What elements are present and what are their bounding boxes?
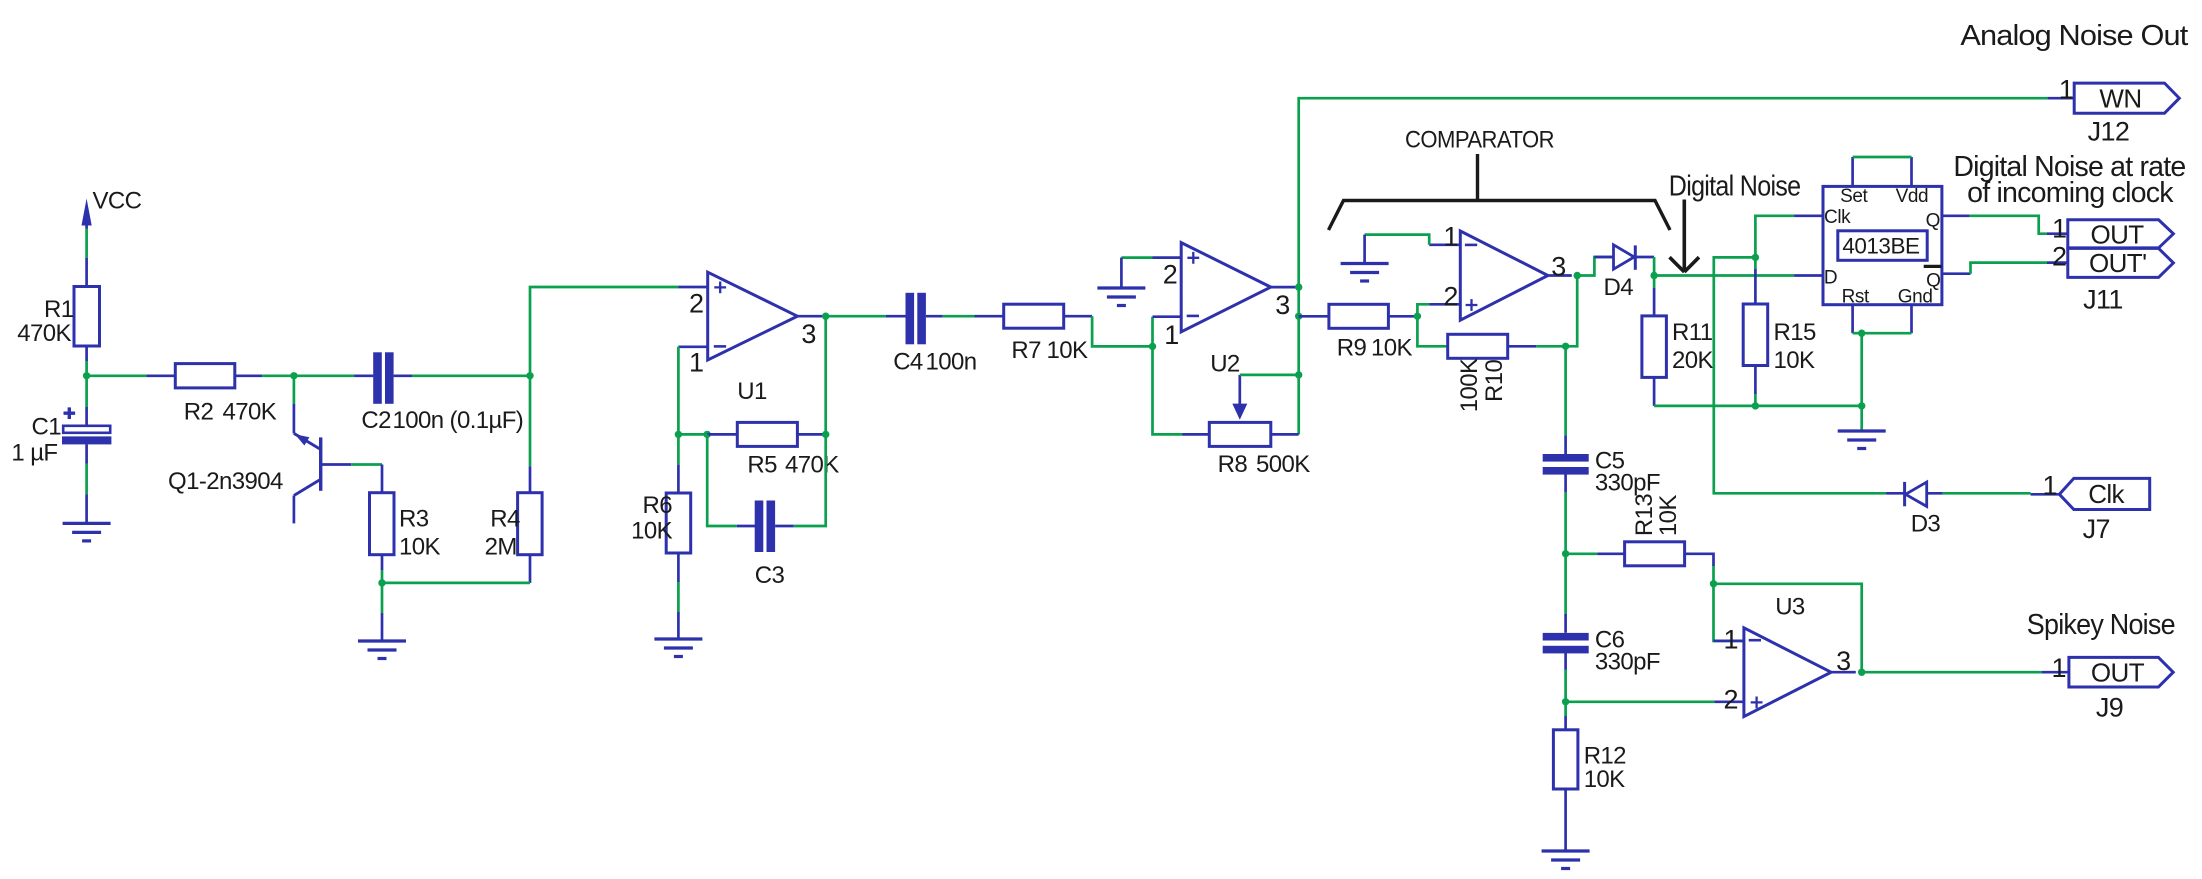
svg-text:3: 3 xyxy=(1275,290,1289,320)
wire down to R8 wiper row xyxy=(1297,316,1300,375)
wire R6 top xyxy=(677,434,680,464)
node R5 left xyxy=(704,431,711,438)
wire Qbar to OUT' connector xyxy=(1971,263,2048,274)
ground at U2 pin2 xyxy=(1097,258,1145,306)
ground below R3 xyxy=(358,613,406,659)
node U2 output xyxy=(1295,283,1302,290)
wire U2 pin1 node down to R8 left xyxy=(1153,346,1183,434)
diode D3 xyxy=(1886,482,1943,538)
wire D3 to J7 xyxy=(1943,492,2031,495)
connector J9 OUT xyxy=(2052,653,2174,687)
svg-text:Clk: Clk xyxy=(1824,207,1851,228)
wire node K down to R12 xyxy=(1564,702,1567,716)
wire Q1 base to R3 xyxy=(351,463,382,466)
svg-text:COMPARATOR: COMPARATOR xyxy=(1405,127,1554,154)
svg-text:R4: R4 xyxy=(490,506,520,533)
svg-text:2: 2 xyxy=(689,289,703,319)
svg-text:J7: J7 xyxy=(2083,514,2110,544)
wire node I down to U3 pin1 xyxy=(1714,584,1744,641)
op-amp comparator xyxy=(1429,222,1572,321)
wire comparator pin2 down to R10 xyxy=(1417,316,1447,346)
op-amp U1 xyxy=(678,272,825,405)
svg-text:1 µF: 1 µF xyxy=(11,440,57,467)
svg-text:10K: 10K xyxy=(631,518,672,545)
svg-text:10K: 10K xyxy=(399,534,440,561)
ic U4 4013BE xyxy=(1794,157,1970,333)
svg-text:Rst: Rst xyxy=(1842,287,1870,308)
svg-text:330pF: 330pF xyxy=(1595,649,1660,676)
transistor Q1 2n3904 xyxy=(168,404,351,523)
node R8 wiper row xyxy=(1295,371,1302,378)
svg-text:R5: R5 xyxy=(747,452,777,479)
node comparator output xyxy=(1574,272,1581,279)
node U1 output xyxy=(822,313,829,320)
op-amp U3 xyxy=(1714,594,1856,717)
svg-text:10K: 10K xyxy=(1371,335,1412,362)
resistor R4 xyxy=(485,466,542,583)
node K (U3 +input node) xyxy=(1562,698,1569,705)
svg-text:Analog Noise Out: Analog Noise Out xyxy=(1960,20,2188,52)
svg-text:Vdd: Vdd xyxy=(1896,186,1929,207)
svg-text:OUT': OUT' xyxy=(2089,248,2146,278)
node D (C2/R4 junction) xyxy=(526,372,533,379)
wire C5 top from node F xyxy=(1564,346,1567,435)
resistor R13 10K xyxy=(1597,494,1713,566)
node U2 inverting input xyxy=(1149,343,1156,350)
node G (digital noise node) xyxy=(1650,272,1657,279)
svg-text:1: 1 xyxy=(2052,653,2066,683)
wire C2 to node D xyxy=(412,374,530,377)
lead OUT pin1 xyxy=(2047,232,2068,235)
potentiometer R8 500K xyxy=(1182,375,1310,478)
svg-text:J9: J9 xyxy=(2096,693,2123,723)
svg-text:4013BE: 4013BE xyxy=(1842,234,1920,259)
wire node A to C1 xyxy=(85,376,88,407)
wire R13 right to node I xyxy=(1712,566,1715,584)
svg-text:Digital Noise: Digital Noise xyxy=(1669,171,1801,203)
wire U2 output down to R9 row xyxy=(1297,287,1300,316)
connector J11 pin1 OUT xyxy=(2052,214,2173,250)
resistor R1 xyxy=(17,258,99,361)
power flag VCC xyxy=(82,188,142,229)
wire R1 to node A xyxy=(85,361,88,376)
wire node B to C2 xyxy=(294,374,354,377)
svg-text:1: 1 xyxy=(1724,625,1738,655)
wire Q to OUT connector xyxy=(1970,216,2047,234)
wire node C to ground xyxy=(381,583,384,613)
wire C4 to R7 xyxy=(943,315,975,318)
wire node up to U2 pin1 xyxy=(1151,317,1154,347)
wire node to R5 left node xyxy=(678,433,707,436)
svg-text:C2: C2 xyxy=(361,407,391,434)
svg-text:D4: D4 xyxy=(1604,274,1634,301)
wire Rst/Gnd down to ground line xyxy=(1860,333,1863,406)
node ground line right xyxy=(1858,402,1865,409)
capacitor C6 330pF xyxy=(1543,614,1660,676)
resistor R10 100K xyxy=(1448,334,1537,412)
ground below 4013 xyxy=(1838,430,1886,449)
svg-text:WN: WN xyxy=(2099,84,2141,114)
wire R3 to node C xyxy=(381,570,384,583)
wire R10 right to node F xyxy=(1536,345,1565,348)
svg-text:2: 2 xyxy=(1724,684,1738,714)
wire node I feedback to U3 output xyxy=(1714,584,1862,672)
wire U1 output node down to R5 right xyxy=(824,316,827,434)
node H (C5/C6/R13 junction) xyxy=(1562,550,1569,557)
svg-text:R1: R1 xyxy=(44,296,74,323)
svg-text:U2: U2 xyxy=(1210,351,1240,378)
svg-text:1: 1 xyxy=(2043,470,2057,500)
node A (noise node) xyxy=(83,372,90,379)
wire Rst to Gnd tie xyxy=(1853,332,1912,335)
wire node D up and to U1 pin2 xyxy=(530,287,678,376)
wire U1 output to C4 xyxy=(826,315,886,318)
svg-text:1: 1 xyxy=(689,348,703,378)
wire comparator pin1 to ground xyxy=(1365,235,1430,245)
capacitor C2 100n xyxy=(354,352,523,434)
svg-text:1: 1 xyxy=(1164,320,1178,350)
resistor R7 xyxy=(975,304,1093,364)
resistor R11 20K xyxy=(1642,288,1714,406)
wire node up to comparator pin2 xyxy=(1417,304,1429,316)
wire ground line R11 to Rst/Gnd stem xyxy=(1654,405,1862,408)
wire R2 to node B xyxy=(262,374,294,377)
svg-text:3: 3 xyxy=(1551,252,1565,282)
svg-text:OUT: OUT xyxy=(2091,658,2145,688)
svg-text:470K: 470K xyxy=(17,320,71,347)
node Rst/Gnd xyxy=(1858,330,1865,337)
svg-text:R13: R13 xyxy=(1631,494,1658,536)
wire node G down to R11 xyxy=(1653,276,1656,289)
svg-text:330pF: 330pF xyxy=(1595,470,1660,497)
node C xyxy=(378,579,385,586)
svg-text:of incoming clock: of incoming clock xyxy=(1967,177,2174,209)
svg-text:J11: J11 xyxy=(2083,285,2123,315)
wire down to R8 right lead xyxy=(1297,375,1300,435)
capacitor C5 330pF xyxy=(1543,435,1660,496)
svg-text:R11: R11 xyxy=(1672,319,1713,346)
svg-text:R9: R9 xyxy=(1337,335,1367,362)
wire output node to D4 xyxy=(1577,257,1613,276)
svg-text:500K: 500K xyxy=(1256,451,1310,478)
svg-text:D3: D3 xyxy=(1911,511,1941,538)
ground below R6 xyxy=(654,612,702,657)
resistor R3 xyxy=(370,465,441,571)
svg-text:1: 1 xyxy=(2052,214,2066,244)
svg-text:U3: U3 xyxy=(1775,594,1805,621)
svg-text:R10: R10 xyxy=(1481,360,1508,402)
wire node B down to Q1 emitter xyxy=(293,376,296,404)
svg-text:10K: 10K xyxy=(1584,766,1625,793)
svg-text:Set: Set xyxy=(1840,186,1868,207)
connector J11 pin2 OUT' xyxy=(2052,242,2173,278)
node R5 right xyxy=(822,431,829,438)
node R15 bottom xyxy=(1752,402,1759,409)
wire R6 to ground xyxy=(677,582,680,612)
svg-text:Clk: Clk xyxy=(2088,479,2125,509)
wire Clk branch to J7 line xyxy=(1714,257,1886,493)
svg-text:Spikey Noise: Spikey Noise xyxy=(2027,609,2175,641)
svg-text:R3: R3 xyxy=(399,506,429,533)
svg-text:2: 2 xyxy=(1443,282,1457,312)
svg-text:470K: 470K xyxy=(785,452,839,479)
connector J12 WN xyxy=(2059,75,2179,114)
wire C1 to ground xyxy=(85,464,88,495)
svg-text:R2: R2 xyxy=(184,399,214,426)
node U3 output xyxy=(1858,669,1865,676)
svg-text:2: 2 xyxy=(1163,260,1177,290)
wire U2 pin2 to ground xyxy=(1121,256,1152,259)
svg-text:100n: 100n xyxy=(926,349,977,376)
svg-text:R6: R6 xyxy=(643,492,673,519)
wire node H to R13 xyxy=(1566,552,1598,555)
wire R5 left node down to C3 xyxy=(707,434,737,526)
wire R9 row to R9 xyxy=(1299,315,1329,318)
wire C3 right up to R5 right node xyxy=(794,434,826,526)
wire D4 down to node G xyxy=(1653,257,1656,276)
capacitor C1 xyxy=(11,407,111,467)
wire node D down to R4 xyxy=(529,376,532,467)
wire node H down to C6 xyxy=(1564,554,1567,614)
wire 4013 Clk pin to R15 top xyxy=(1755,216,1794,258)
connector J7 Clk xyxy=(2043,470,2150,509)
resistor R2 xyxy=(146,364,276,426)
node comparator +input xyxy=(1414,313,1421,320)
vertical bus wire U2 output up to WN rail xyxy=(1299,98,2048,287)
svg-text:Q: Q xyxy=(1926,211,1940,232)
svg-text:C4: C4 xyxy=(893,349,923,376)
resistor R9 xyxy=(1329,304,1418,361)
svg-text:470K: 470K xyxy=(223,399,277,426)
svg-text:Gnd: Gnd xyxy=(1898,287,1933,308)
svg-text:10K: 10K xyxy=(1655,495,1682,536)
ground at comparator pin1 xyxy=(1341,235,1389,281)
node F (R10/C5 junction) xyxy=(1562,343,1569,350)
wire Set to Vdd bridge xyxy=(1853,156,1912,159)
svg-text:10K: 10K xyxy=(1774,347,1815,374)
lead OUT' pin2 xyxy=(2047,261,2068,264)
lead J9 pin1 xyxy=(2042,671,2069,674)
svg-text:J12: J12 xyxy=(2088,117,2130,147)
resistor R5 xyxy=(707,422,839,478)
lead WN pin1 xyxy=(2048,97,2075,100)
ground below C1 xyxy=(63,494,111,541)
svg-text:100n (0.1µF): 100n (0.1µF) xyxy=(393,407,524,434)
svg-text:R8: R8 xyxy=(1218,451,1248,478)
wire D line node G to 4013 D pin xyxy=(1654,274,1794,277)
node B xyxy=(290,372,297,379)
svg-text:3: 3 xyxy=(1836,646,1850,676)
svg-text:R15: R15 xyxy=(1774,319,1816,346)
wire node C to R4 bottom xyxy=(382,582,530,585)
wire node A to R2 xyxy=(87,374,147,377)
wire U1 pin1 down to feedback node xyxy=(677,347,680,435)
svg-text:2: 2 xyxy=(2052,242,2066,272)
svg-text:VCC: VCC xyxy=(93,188,142,215)
svg-text:10K: 10K xyxy=(1047,337,1088,364)
ground below R12 xyxy=(1542,851,1590,869)
svg-text:2M: 2M xyxy=(485,534,517,561)
node R9 row xyxy=(1295,313,1302,320)
node I (U3 inverting node) xyxy=(1710,580,1717,587)
node R15 top / Clk branch xyxy=(1752,254,1759,261)
wire R15 bottom to ground line xyxy=(1754,394,1757,406)
resistor R15 10K xyxy=(1743,257,1816,394)
wire C6 bottom to node K xyxy=(1564,670,1567,702)
wire R8 wiper to bus xyxy=(1240,374,1299,377)
svg-text:100K: 100K xyxy=(1456,358,1483,412)
svg-text:1: 1 xyxy=(1443,222,1457,252)
svg-text:OUT: OUT xyxy=(2091,220,2145,250)
wire C5 bottom to node H xyxy=(1564,492,1567,553)
lead J7 pin1 xyxy=(2031,493,2060,496)
arrow Digital Noise xyxy=(1670,200,1700,273)
svg-text:1: 1 xyxy=(2059,75,2073,105)
wire down to ground xyxy=(1860,406,1863,430)
svg-text:3: 3 xyxy=(801,319,815,349)
svg-text:R7: R7 xyxy=(1011,337,1041,364)
svg-text:D: D xyxy=(1824,268,1837,289)
diode D4 xyxy=(1594,245,1654,301)
capacitor C4 100n xyxy=(886,293,977,376)
svg-text:C3: C3 xyxy=(755,562,785,589)
comparator brace xyxy=(1329,154,1671,230)
svg-text:U1: U1 xyxy=(737,378,767,405)
wire node F to comparator output node xyxy=(1566,276,1578,347)
wire node K to U3 pin2 xyxy=(1566,700,1715,703)
svg-text:Q1-2n3904: Q1-2n3904 xyxy=(168,468,283,495)
resistor R6 xyxy=(631,465,691,582)
svg-text:C1: C1 xyxy=(32,414,62,441)
node U1 inverting input xyxy=(675,431,682,438)
wire U3 output to J9 xyxy=(1862,671,2042,674)
op-amp U2 xyxy=(1153,243,1299,378)
wire VCC to R1 xyxy=(85,229,88,259)
svg-text:20K: 20K xyxy=(1672,347,1713,374)
capacitor C3 xyxy=(737,501,794,590)
wire R7 to U2 pin1 node xyxy=(1092,316,1152,346)
resistor R12 10K xyxy=(1553,716,1626,851)
